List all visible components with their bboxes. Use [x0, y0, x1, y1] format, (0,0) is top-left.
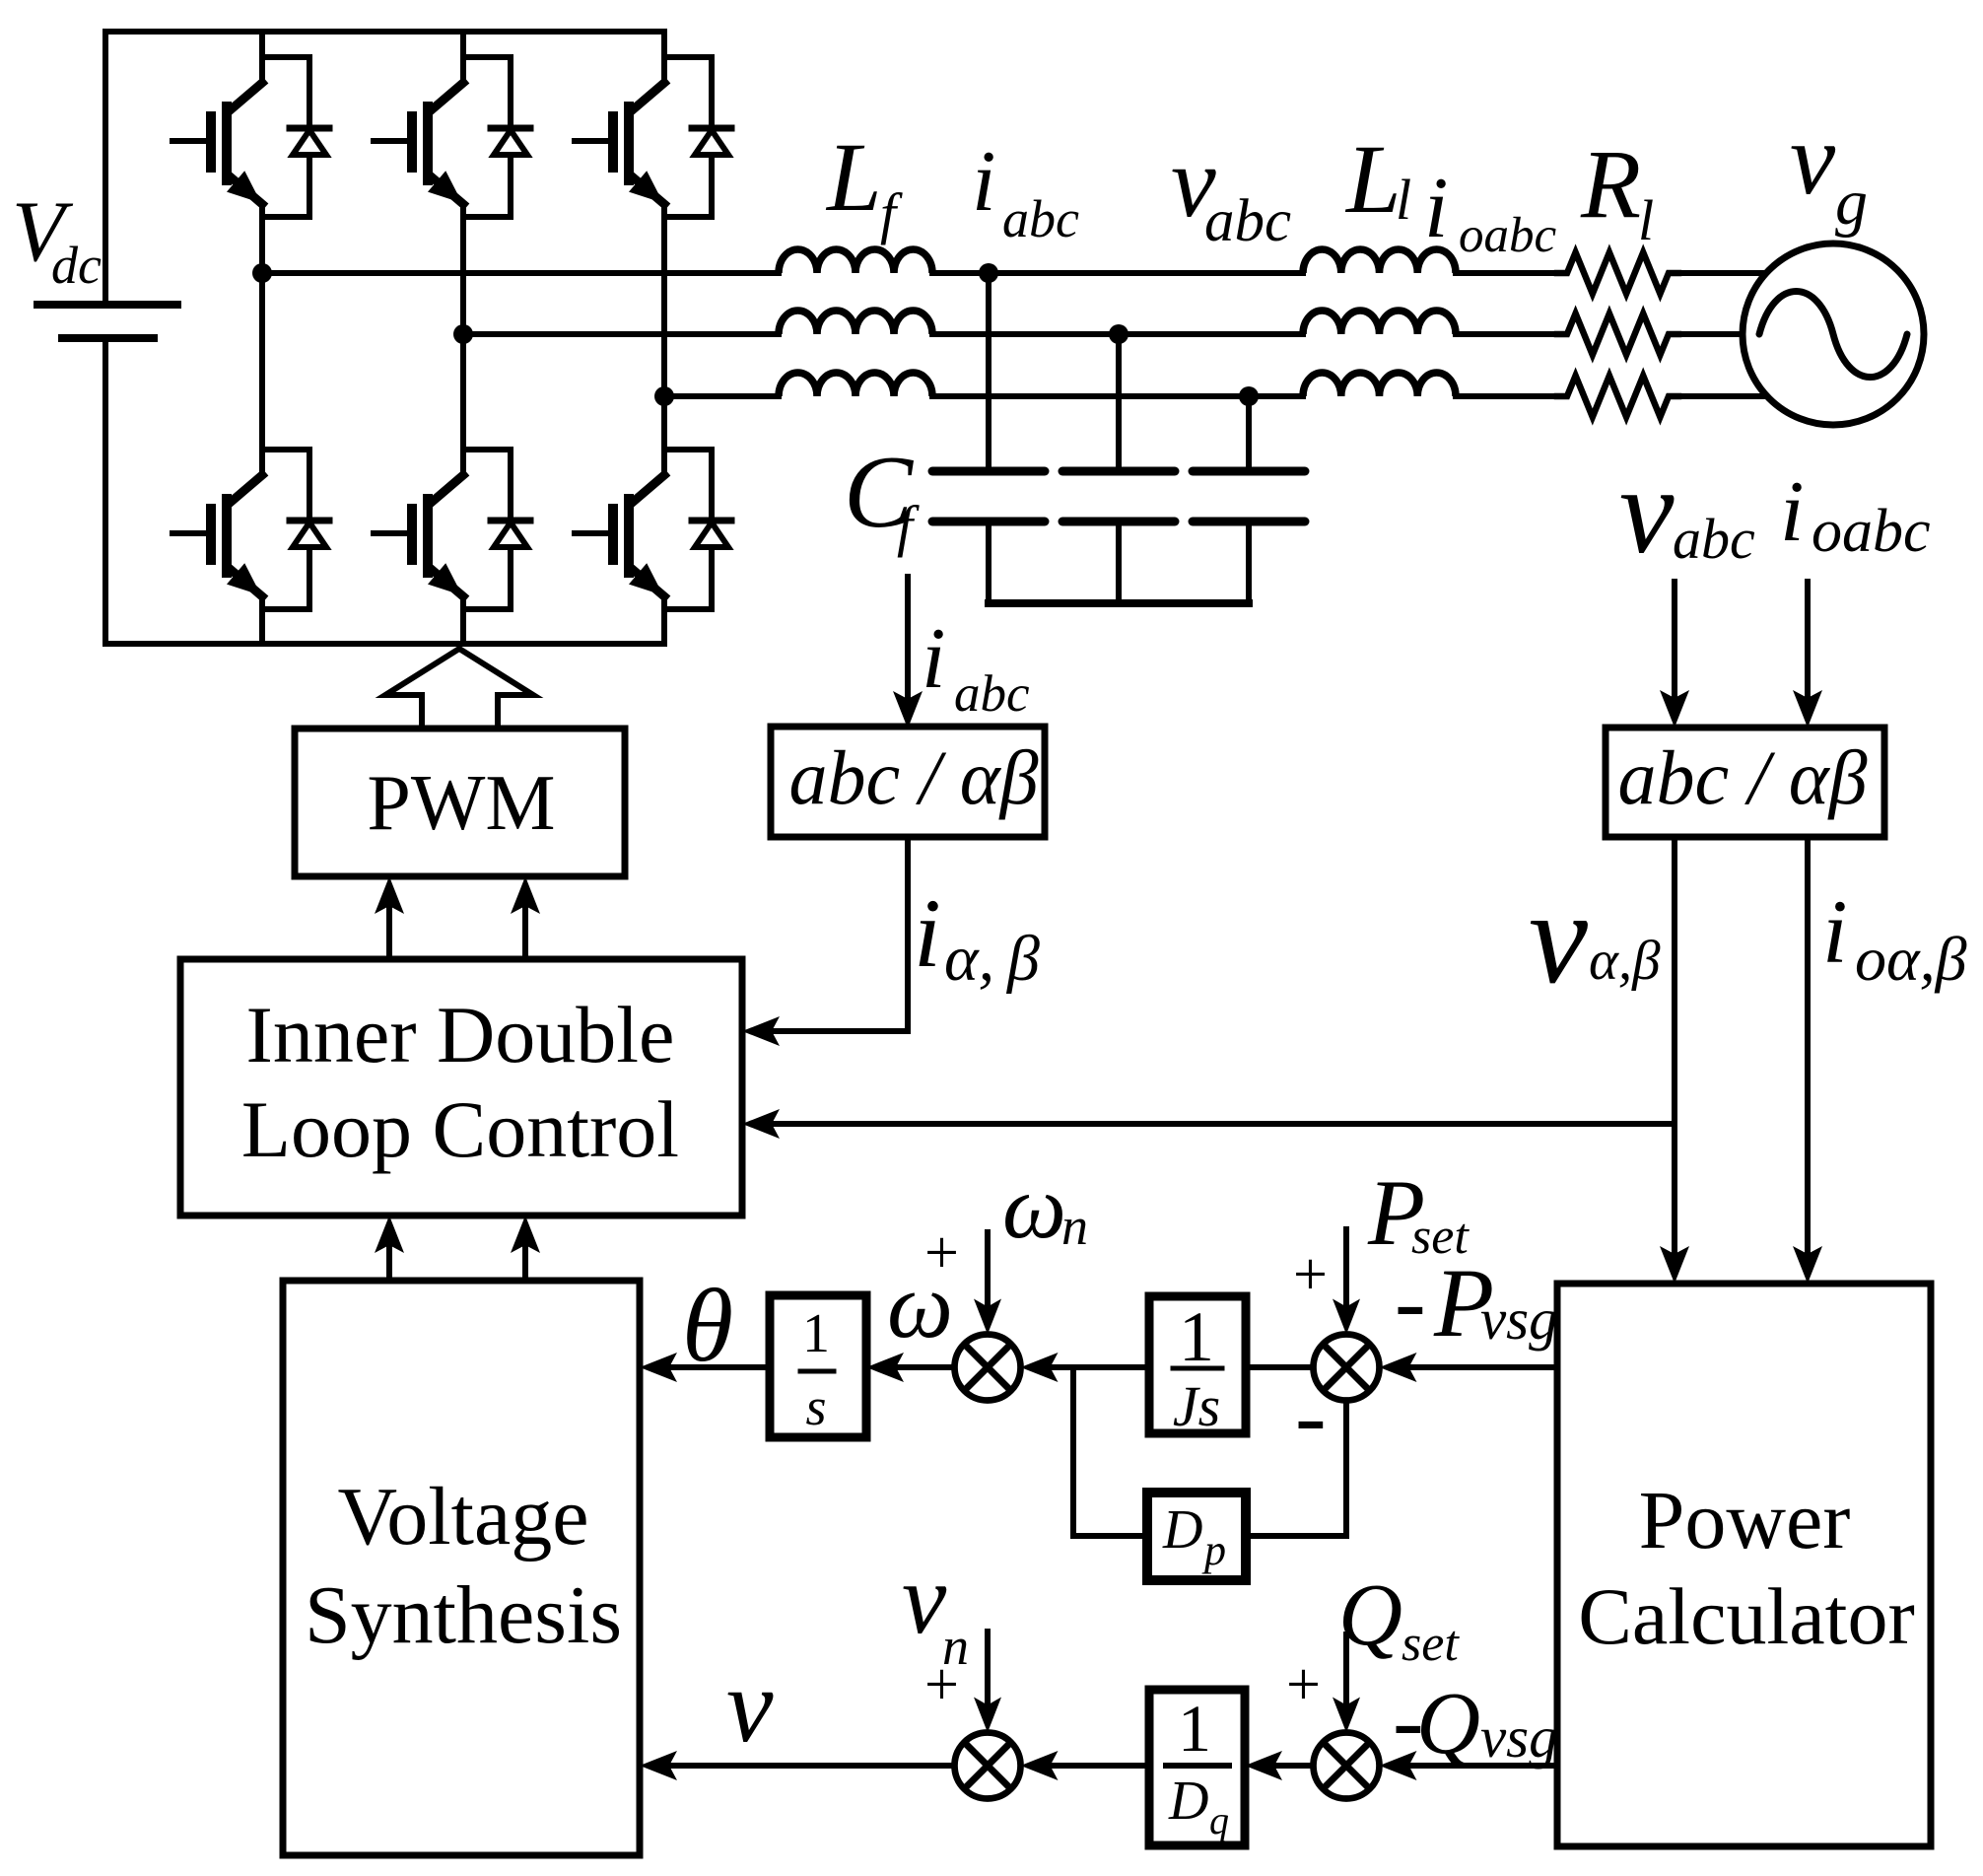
wire phase b Ll to Rl	[1456, 331, 1557, 337]
diode D6	[664, 450, 731, 609]
capacitor Cf phase a	[932, 273, 1045, 603]
svg-text:ω: ω	[1002, 1156, 1066, 1257]
resistor Rl phase a	[1557, 252, 1678, 294]
inductor Ll phase a	[1303, 249, 1456, 273]
label Q_vsg	[1416, 1675, 1558, 1772]
svg-text:oabc: oabc	[1459, 208, 1557, 263]
svg-text:g: g	[1835, 167, 1868, 239]
svg-text:Inner Double: Inner Double	[246, 990, 675, 1079]
label Ll	[1344, 124, 1411, 234]
label Lf	[825, 122, 903, 245]
svg-text:l: l	[1638, 188, 1654, 252]
svg-text:Calculator: Calculator	[1578, 1571, 1915, 1661]
label P_vsg	[1433, 1248, 1558, 1357]
block arrow PWM to bridge	[385, 649, 533, 729]
wire 1/Js to sum1	[1053, 1364, 1150, 1370]
svg-text:abc / αβ: abc / αβ	[1617, 734, 1867, 820]
svg-text:-: -	[1295, 1363, 1327, 1468]
svg-text:v: v	[1619, 444, 1675, 580]
wire sum2 to 1/Js	[1246, 1364, 1314, 1370]
wire Q_vsg power calc to sum4	[1411, 1763, 1558, 1769]
wire voltage synthesis to inner loop arrow 1	[386, 1247, 392, 1281]
svg-text:Synthesis: Synthesis	[305, 1569, 622, 1661]
svg-text:Voltage: Voltage	[337, 1471, 588, 1563]
wire phase a Rl to grid	[1678, 270, 1763, 276]
svg-text:set: set	[1402, 1616, 1460, 1672]
svg-text:1: 1	[802, 1303, 830, 1364]
svg-text:+: +	[1286, 1651, 1321, 1718]
svg-text:i: i	[972, 134, 995, 230]
wire P_vsg power calc to sum2	[1411, 1364, 1558, 1370]
svg-text:i: i	[1822, 881, 1848, 982]
svg-text:i: i	[1780, 464, 1804, 560]
wire collector leg 3 lower	[661, 396, 667, 475]
wire collector leg 1 lower	[259, 273, 265, 475]
battery Vdc source	[37, 32, 177, 644]
svg-text:s: s	[805, 1377, 826, 1436]
diode D3	[463, 57, 530, 217]
svg-text:v: v	[902, 1544, 947, 1655]
label i_abc sense	[922, 611, 1030, 723]
label omega_n	[1002, 1156, 1088, 1257]
label Cf	[844, 434, 920, 558]
svg-text:abc: abc	[1673, 507, 1755, 571]
svg-text:+: +	[924, 1219, 959, 1286]
block abc/alphabeta left	[771, 727, 1045, 837]
svg-text:v: v	[1790, 103, 1836, 216]
wire Q_set arrow into sum4	[1343, 1634, 1349, 1705]
label v_alphabeta	[1529, 865, 1661, 1011]
block PWM	[295, 729, 625, 876]
block 1/Js	[1149, 1296, 1246, 1438]
svg-text:α,β: α,β	[1589, 930, 1661, 992]
diode D2	[262, 450, 329, 609]
svg-text:L: L	[1344, 124, 1402, 234]
wire i_abc sense arrow	[905, 577, 911, 699]
wire emitter leg 1 to phase node	[259, 204, 265, 273]
capacitor Cf phase c	[1193, 396, 1305, 603]
svg-text:Loop Control: Loop Control	[241, 1084, 679, 1174]
wire Dp to sum2 bottom	[1248, 1401, 1346, 1537]
svg-text:L: L	[825, 122, 882, 232]
node capacitor tap b	[1109, 324, 1128, 344]
wire emitter leg 2 bottom	[460, 596, 466, 644]
label i_alphabeta	[914, 878, 1040, 995]
inductor Ll phase c	[1303, 373, 1456, 396]
block Inner Double Loop Control	[180, 959, 742, 1216]
summing junction sum2	[1314, 1335, 1380, 1401]
svg-text:v: v	[1529, 865, 1588, 1011]
svg-text:β: β	[1005, 923, 1040, 995]
svg-text:PWM: PWM	[367, 760, 555, 847]
wire inner loop to PWM arrow 1	[386, 908, 392, 959]
svg-text:D: D	[1162, 1499, 1202, 1561]
inductor Lf phase a	[779, 249, 932, 273]
label i_oabc sense	[1780, 464, 1931, 565]
block Power Calculator	[1557, 1284, 1931, 1846]
node phase a	[252, 263, 272, 283]
wire collector leg 3 top	[661, 32, 667, 83]
transistor Q3 (IGBT)	[374, 83, 463, 204]
label P_set	[1367, 1160, 1470, 1265]
wire 1/Dq to sum3	[1053, 1763, 1150, 1769]
svg-text:i: i	[922, 611, 945, 707]
wire top DC rail	[105, 29, 664, 35]
block Voltage Synthesis	[283, 1281, 640, 1855]
summing junction sum3	[955, 1733, 1021, 1799]
wire emitter leg 1 bottom	[259, 596, 265, 644]
inductor Ll phase b	[1303, 311, 1456, 334]
wire phase a Ll to Rl	[1456, 270, 1557, 276]
svg-text:i: i	[1424, 161, 1448, 256]
wire collector leg 1 top	[259, 32, 265, 83]
transistor Q1 (IGBT)	[172, 83, 262, 204]
resistor Rl phase c	[1557, 376, 1678, 417]
label i_oalphabeta	[1822, 881, 1967, 994]
wire i_oabc sense arrow	[1805, 582, 1811, 698]
diode D1	[262, 57, 329, 217]
wire omega sum1 to 1/s	[898, 1364, 955, 1370]
block abc/alphabeta right	[1606, 728, 1884, 837]
node phase b	[453, 324, 473, 344]
wire emitter leg 2 to phase node	[460, 204, 466, 334]
svg-text:Power: Power	[1639, 1475, 1851, 1566]
inductor Lf phase b	[779, 311, 932, 334]
label vg	[1790, 103, 1868, 239]
block 1/Dq	[1149, 1690, 1245, 1845]
transistor Q2 (IGBT)	[172, 475, 262, 596]
svg-text:oα,β: oα,β	[1855, 924, 1967, 994]
svg-text:Js: Js	[1173, 1374, 1220, 1438]
wire collector leg 2 top	[460, 32, 466, 83]
summing junction sum4	[1314, 1733, 1380, 1799]
diode D5	[664, 57, 731, 217]
label v_abc filter voltage	[1171, 126, 1291, 254]
wire v_n arrow into sum3	[985, 1632, 991, 1705]
wire sum4 to 1/Dq	[1276, 1763, 1314, 1769]
svg-text:D: D	[1168, 1771, 1208, 1832]
label Vdc	[12, 184, 102, 295]
node phase c	[654, 386, 674, 406]
wire phase b Lf to Ll	[932, 331, 1303, 337]
wire inner loop to PWM arrow 2	[522, 908, 528, 959]
transistor Q4 (IGBT)	[374, 475, 463, 596]
wire phase b inverter to Lf	[463, 331, 779, 337]
svg-text:+: +	[1293, 1241, 1328, 1308]
wire voltage synthesis to inner loop arrow 2	[522, 1247, 528, 1281]
label Q_set	[1338, 1566, 1460, 1672]
node capacitor tap a	[979, 263, 998, 283]
block 1/s integrator	[770, 1295, 866, 1437]
transistor Q5 (IGBT)	[575, 83, 664, 204]
label v_abc sense	[1619, 444, 1755, 580]
resistor Rl phase b	[1557, 313, 1678, 355]
label v_n	[902, 1544, 969, 1676]
svg-text:abc: abc	[1204, 188, 1291, 254]
svg-text:oabc: oabc	[1812, 498, 1931, 565]
wire phase c Ll to Rl	[1456, 393, 1557, 399]
label i_oabc line	[1424, 161, 1557, 263]
svg-text:R: R	[1580, 129, 1641, 239]
svg-text:l: l	[1396, 168, 1411, 232]
svg-text:-: -	[1395, 1249, 1426, 1354]
wire v arrow into voltage synthesis	[671, 1763, 955, 1769]
svg-text:v: v	[726, 1648, 774, 1765]
svg-text:n: n	[942, 1617, 969, 1676]
svg-text:Q: Q	[1338, 1566, 1402, 1664]
wire emitter leg 3 bottom	[661, 596, 667, 644]
svg-text:vsg: vsg	[1480, 1286, 1558, 1352]
inductor Lf phase c	[779, 373, 932, 396]
wire phase b Rl to grid	[1678, 331, 1741, 337]
wire v_alphabeta tee to inner loop	[774, 1121, 1675, 1127]
wire theta arrow into voltage synthesis	[671, 1364, 770, 1370]
wire v_abc sense arrow	[1672, 582, 1677, 698]
svg-text:abc: abc	[954, 665, 1030, 723]
diode D4	[463, 450, 530, 609]
node capacitor tap c	[1239, 386, 1259, 406]
wire phase c Rl to grid	[1678, 393, 1763, 399]
wire emitter leg 3 to phase node	[661, 204, 667, 396]
wire Dp feedback tap down	[1073, 1367, 1146, 1536]
label i_abc line current	[972, 134, 1079, 248]
svg-text:n: n	[1061, 1197, 1088, 1256]
wire collector leg 2 lower	[460, 334, 466, 475]
svg-text:vsg: vsg	[1480, 1704, 1558, 1770]
svg-text:Q: Q	[1416, 1675, 1480, 1772]
wire bottom DC rail	[105, 641, 664, 647]
capacitor Cf phase b	[1062, 334, 1175, 603]
wire phase c Lf to Ll	[932, 393, 1303, 399]
block Dp	[1147, 1493, 1246, 1580]
svg-text:θ: θ	[682, 1268, 733, 1383]
wire i_alphabeta to inner loop	[774, 837, 908, 1031]
wire capacitor neutral bus	[989, 599, 1249, 607]
svg-text:p: p	[1201, 1526, 1226, 1574]
wire omega_n arrow into sum1	[985, 1232, 991, 1307]
svg-text:dc: dc	[51, 236, 102, 295]
svg-text:α,: α,	[944, 923, 994, 995]
svg-text:q: q	[1209, 1798, 1229, 1842]
transistor Q6 (IGBT)	[575, 475, 664, 596]
wire phase a inverter to Lf	[262, 270, 779, 276]
wire phase a Lf to Ll	[932, 270, 1303, 276]
wire phase c inverter to Lf	[664, 393, 779, 399]
svg-text:i: i	[914, 878, 941, 988]
AC grid source vg	[1743, 243, 1924, 425]
svg-text:1: 1	[1178, 1691, 1211, 1766]
svg-text:abc / αβ: abc / αβ	[788, 734, 1038, 820]
svg-text:1: 1	[1179, 1297, 1214, 1376]
wire i_oalphabeta to power calculator	[1805, 837, 1811, 1254]
wire v_alphabeta to power calculator	[1672, 837, 1677, 1254]
wire P_set arrow into sum2	[1343, 1229, 1349, 1307]
label Rl	[1580, 129, 1654, 252]
svg-text:abc: abc	[1002, 189, 1079, 248]
summing junction sum1	[955, 1335, 1021, 1401]
